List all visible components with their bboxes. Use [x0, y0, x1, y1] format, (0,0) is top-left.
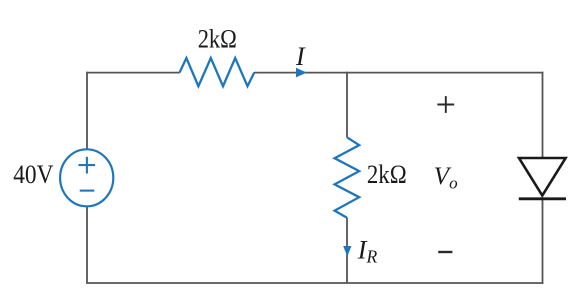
- svg-text:2kΩ: 2kΩ: [367, 160, 407, 189]
- wire middle vertical lower: [346, 218, 348, 283]
- diode D1 cathode bar: [519, 197, 566, 200]
- svg-text:IR: IR: [357, 235, 378, 266]
- svg-text:40V: 40V: [13, 160, 53, 189]
- svg-text:Vo: Vo: [434, 163, 458, 193]
- wire top-right segment: [254, 72, 543, 74]
- voltage source minus sign: [80, 190, 95, 192]
- resistor R2 2k ohm vertical zigzag: [335, 137, 360, 217]
- minus sign polarity: [438, 251, 452, 253]
- svg-text:2kΩ: 2kΩ: [198, 25, 237, 54]
- wire top-left segment: [87, 72, 180, 74]
- wire right vertical lower: [542, 199, 544, 284]
- wire right vertical upper: [542, 72, 544, 158]
- wire middle vertical upper: [346, 72, 348, 138]
- resistor R1 2k ohm horizontal zigzag: [180, 58, 255, 86]
- svg-text:I: I: [295, 42, 306, 71]
- plus sign polarity: [437, 96, 454, 113]
- wire left vertical lower: [86, 206, 88, 283]
- voltage source V1 circle: [60, 149, 113, 206]
- wire left vertical upper: [86, 72, 88, 152]
- diode D1 triangle: [519, 158, 566, 196]
- current arrow I head: [296, 68, 307, 78]
- voltage source plus sign: [79, 157, 96, 174]
- current arrow IR head: [343, 246, 351, 257]
- wire bottom segment: [86, 282, 543, 284]
